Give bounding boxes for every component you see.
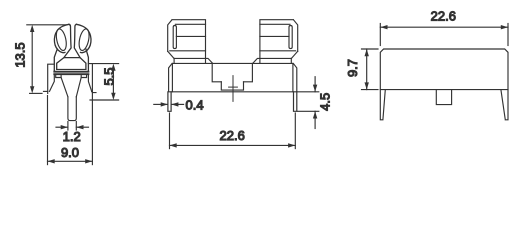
dimension 13.5 extension top [27,24,67,26]
right pin [294,92,297,112]
recess tub right [244,63,253,81]
funnel left slant [61,78,68,97]
svg-text:1.2: 1.2 [63,129,81,144]
left wall of base [48,64,55,93]
recess tub left [212,63,221,81]
dimension 1.2 leader right [76,126,88,128]
clip body outer left edge [54,49,57,71]
base right wall inner line [292,63,294,91]
svg-text:22.6: 22.6 [220,128,245,143]
dimension 22.6 line [170,144,296,146]
dimension 4.5 arrows [313,85,317,119]
right foot tab [81,74,86,77]
svg-text:13.5: 13.5 [13,42,28,67]
clip left ear outer [54,24,69,52]
clip body inner hexagon [57,58,86,70]
dimension 5.5 extension top [93,63,119,65]
right clip bottom edge [253,58,292,63]
dimension 13.5 arrows [30,25,34,94]
recess step [221,82,243,90]
clip right ear hole [77,28,90,51]
left clip inner bottom line [170,50,206,52]
dimension 9.7 line [366,49,368,90]
band top line [54,71,88,73]
right clip bottom chamfer [291,51,297,58]
left clip bottom edge [174,58,213,63]
left clip outer [168,20,206,63]
dimension 1.2 extension right [75,122,77,131]
dimension 0.4 leader left [154,103,168,105]
left clip slot [173,26,176,49]
center tab [436,90,451,105]
pin outer U [68,97,76,121]
right clip inner top line [260,23,290,25]
left leg [380,90,385,120]
clip right ear outer [76,24,91,52]
right clip outer [260,20,298,63]
clip right arm inner edge [74,24,80,57]
dimension 4.5 line below [314,111,316,128]
dimension 9.0 arrows [48,159,93,163]
left clip foot edge [173,58,175,63]
right wall of base [88,64,92,93]
dimension 22.6 extension left [169,113,171,149]
svg-text:9.7: 9.7 [345,59,360,77]
dimension 5.5 arrows [111,64,115,100]
left clip bottom chamfer [168,51,174,58]
dimension 9.7 extension top [362,48,379,50]
clip body outer right edge [86,49,88,71]
dimension 0.4 arrows [161,102,179,106]
dimension 4.5 extension top [298,91,319,93]
svg-text:0.4: 0.4 [186,97,204,112]
dimension 9.0 extension left [47,96,49,165]
right clip mid line [260,35,289,37]
base bottom edge right [92,92,96,93]
right clip slot [289,26,292,49]
dimension 9.0 line [48,160,93,162]
dimension 22.6 line [380,26,508,28]
right clip foot edge [290,58,292,63]
dimension 5.5 extension bottom [90,99,119,101]
dimension 4.5 line above [314,77,316,92]
base bottom edge left [44,90,48,92]
right leg [501,90,508,120]
left clip mid line [176,35,205,37]
center line tick [229,86,238,88]
left clip inner top line [175,23,205,25]
hexagon bottom line [57,68,86,70]
dimension 22.6 extension right [507,24,509,46]
svg-text:5.5: 5.5 [102,67,117,85]
clip left ear hole [55,28,68,51]
dimension 1.2 leader left [56,126,68,128]
left foot tab [56,74,61,77]
dimension 5.5 line [112,68,114,96]
funnel right slant [76,78,81,97]
dimension 9.7 extension bottom [362,89,379,91]
dimension 9.7 arrows [365,49,369,90]
dimension 13.5 extension bottom [30,92,42,94]
svg-text:4.5: 4.5 [318,93,333,111]
base left wall inner line [171,63,173,91]
base body outline [169,63,297,91]
dimension 13.5 line [31,30,33,90]
dimension 22.6 arrows [380,25,508,29]
dimension 9.0 extension right [91,94,93,165]
dimension 1.2 extension left [67,122,69,131]
right clip inner bottom line [260,50,296,52]
body outline [380,49,508,90]
dimension 1.2 arrows [61,125,84,129]
left pin [168,92,171,112]
dimension 22.6 extension left [379,24,381,46]
dimension 22.6 arrows [170,143,296,147]
svg-text:9.0: 9.0 [61,145,79,160]
dimension 4.5 extension bottom [298,110,319,112]
left side tab flare [50,74,55,91]
svg-text:22.6: 22.6 [431,9,456,24]
center line vertical [232,76,234,102]
dimension 22.6 extension right [294,113,296,149]
dimension 0.4 leader right [171,103,184,105]
band bottom line [54,73,88,75]
right side tab flare [88,74,91,91]
clip left arm inner edge [64,24,71,57]
